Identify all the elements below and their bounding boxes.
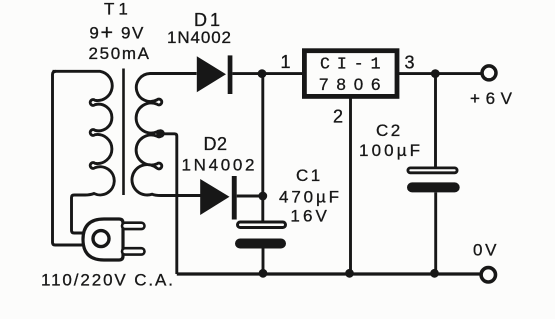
wire junction down to D2 junction [261,74,264,196]
capacitor C1 [235,222,286,249]
wire bottom rail 0V [177,272,480,275]
svg-text:9+ 9V: 9+ 9V [89,21,144,45]
node junction C2 top [431,69,440,78]
wire D1 cathode to IC pin 1 [232,72,302,75]
capacitor C2 [407,168,460,193]
svg-text:2: 2 [333,107,343,127]
wire C2 bottom plate to rail [434,192,437,273]
regulator CI-1 box [304,51,397,97]
svg-text:3: 3 [405,53,415,73]
svg-text:250mA: 250mA [89,44,150,63]
diode D2 [200,176,237,220]
wire junction to C1 top plate [261,196,264,221]
node center tap [156,129,165,138]
svg-text:0V: 0V [473,241,497,260]
wire IC pin 3 to +6V terminal [399,72,481,75]
wire center tap to bottom rail [161,134,177,274]
svg-text:470µF: 470µF [279,187,339,206]
plug AC mains [83,219,145,260]
terminal +6V [482,66,496,80]
svg-text:C1: C1 [296,166,323,185]
wire left vertical from primary top to plug [53,71,84,245]
wire D2 cathode to C1 column [237,195,264,198]
node junction D1 output [258,69,267,78]
svg-text:16V: 16V [290,207,327,226]
transformer T1 primary winding [53,71,115,195]
node rail junction C1 [259,269,268,278]
svg-text:C2: C2 [376,121,403,140]
svg-text:D2: D2 [204,134,228,154]
node junction D2 output [258,192,267,201]
wire C1 bottom plate to rail [262,249,265,274]
svg-text:1: 1 [281,52,291,72]
svg-text:100µF: 100µF [359,141,420,160]
svg-text:T1: T1 [104,0,132,19]
transformer core [122,69,125,196]
diode D1 [197,55,233,94]
node rail junction pin 2 [345,269,354,278]
terminal 0V [481,268,495,282]
wire junction down to C2 [434,74,437,167]
node rail junction C2 [430,269,439,278]
svg-text:1N4002: 1N4002 [167,28,231,47]
wire primary bottom lead to plug [72,195,86,233]
transformer T1 secondary winding [132,74,201,196]
wire IC pin 2 to rail [349,98,352,273]
svg-text:+6V: +6V [470,89,513,108]
